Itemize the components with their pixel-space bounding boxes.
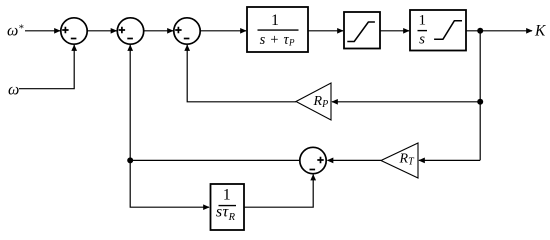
svg-text:1: 1 bbox=[271, 12, 279, 29]
svg-text:s: s bbox=[419, 32, 425, 48]
svg-text:1: 1 bbox=[223, 187, 231, 204]
svg-text:ω: ω bbox=[8, 82, 19, 99]
svg-text:K: K bbox=[534, 23, 546, 40]
svg-text:1: 1 bbox=[419, 13, 427, 29]
